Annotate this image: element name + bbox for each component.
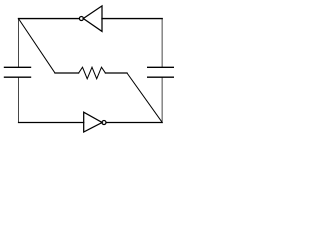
wire resistor left lead [55,72,79,74]
op-amp U1 inverter pointing left [79,6,102,32]
wire top-right horizontal [102,18,162,20]
wire left side lower [18,77,20,122]
wire diagonal to bottom-right corner [127,73,162,123]
wire top-left horizontal [19,18,80,20]
wire bottom-right horizontal [106,122,162,124]
capacitor C1 left [5,67,31,77]
wire diagonal from top-left corner [19,19,56,73]
wire left side upper [18,19,20,68]
wire resistor right lead [105,72,127,74]
wire bottom-left horizontal [19,122,84,124]
op-amp U2 inverter pointing right [84,112,106,132]
capacitor C2 right [148,67,174,77]
wire right side upper [161,19,163,68]
resistor R1 [79,67,106,79]
wire right side lower [161,77,163,122]
